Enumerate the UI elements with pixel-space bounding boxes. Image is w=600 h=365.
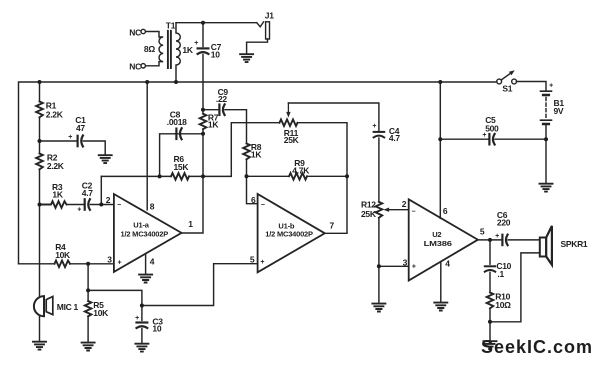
capacitor C10 — [485, 266, 495, 271]
NC terminal top — [141, 29, 145, 33]
svg-text:3: 3 — [107, 254, 112, 264]
wire R11 wiper to C4 — [288, 103, 379, 131]
transformer T1 primary wires and winding — [145, 32, 163, 66]
wire U1-a pin 4 to ground — [145, 254, 147, 275]
svg-text:−: − — [117, 202, 121, 209]
wire C2 to U1-a pin 2 node — [90, 204, 114, 206]
wire C6 to speaker — [508, 239, 540, 241]
wire C1 right to ground — [83, 141, 105, 155]
wire R11 right side down to R9 node and U1-b output — [298, 123, 348, 234]
ground U2 pin 4 — [434, 303, 447, 311]
wire R9 left — [247, 175, 290, 177]
wire R12 bottom through pin3 node to ground — [378, 218, 380, 304]
svg-text:1K: 1K — [251, 150, 262, 160]
resistor R1 — [36, 102, 43, 118]
wire U2 pin 6 from bus through C5 node — [439, 82, 441, 218]
node C7/C9/R7 — [201, 108, 205, 112]
svg-text:1/2 MC34002P: 1/2 MC34002P — [121, 230, 169, 239]
svg-text:.22: .22 — [216, 94, 227, 104]
svg-text:8: 8 — [150, 202, 155, 212]
svg-text:1K: 1K — [52, 190, 63, 200]
capacitor C7 — [198, 48, 209, 54]
node R8/R9/pin6 — [245, 174, 249, 178]
wire U2 output to C6 — [478, 239, 501, 241]
node bus/U2 pin6 — [438, 80, 442, 84]
potentiometer R12 — [376, 202, 383, 218]
svg-text:+: + — [117, 259, 121, 266]
svg-text:10K: 10K — [93, 308, 109, 318]
node R7/feedback — [201, 174, 205, 178]
svg-text:.0018: .0018 — [167, 117, 187, 127]
capacitor C4 — [374, 132, 385, 138]
node bus/pin8 — [145, 80, 149, 84]
svg-text:4: 4 — [445, 259, 450, 269]
svg-text:NC: NC — [129, 61, 141, 71]
svg-text:+: + — [495, 233, 499, 240]
switch S1 — [497, 79, 502, 84]
op-amp U1-b — [258, 194, 325, 272]
wire S1 to battery — [517, 82, 547, 91]
wire T1 secondary top to J1 — [176, 22, 257, 24]
polarity marks — [68, 40, 553, 322]
capacitor C9 — [219, 104, 224, 115]
svg-text:−: − — [261, 202, 265, 209]
wire C9 right corner down to R8 — [225, 110, 246, 144]
svg-text:1K: 1K — [208, 120, 219, 130]
svg-text:2.2K: 2.2K — [47, 161, 65, 171]
ground speaker line — [484, 341, 497, 349]
svg-text:1K: 1K — [182, 45, 193, 55]
connector J1 — [257, 22, 270, 39]
node R10/speaker return — [488, 320, 492, 324]
wire C10 to R10 — [489, 272, 491, 292]
wire battery to C5 node and ground — [545, 126, 547, 184]
svg-text:NC: NC — [129, 27, 141, 37]
svg-text:MIC 1: MIC 1 — [57, 302, 79, 312]
wire R9 right to feedback node — [307, 175, 347, 177]
svg-text:9V: 9V — [554, 106, 564, 116]
svg-text:4: 4 — [150, 256, 155, 266]
ground U1-a pin 4 — [139, 275, 152, 283]
wire MIC 1 to ground — [39, 316, 41, 341]
wire J1/C7 node down through C7 to R7 — [202, 23, 204, 47]
svg-text:5: 5 — [480, 227, 485, 237]
wire R4 line left segment — [19, 263, 55, 265]
op-amp U2 — [409, 199, 478, 280]
wire top supply bus with left rail down to R4 line — [19, 82, 497, 264]
wire feedback line left segment — [101, 175, 171, 177]
svg-text:8Ω: 8Ω — [144, 44, 155, 54]
svg-text:S1: S1 — [502, 84, 512, 94]
node R7/C8 — [201, 132, 205, 136]
svg-text:+: + — [194, 40, 198, 47]
node C2/pin2 — [99, 203, 103, 207]
wire speaker return — [490, 253, 540, 322]
ground C1 — [99, 155, 112, 163]
battery B1 — [541, 91, 552, 120]
wire R4 to U1-a pin 3 — [70, 263, 114, 265]
svg-text:.1: .1 — [497, 269, 504, 279]
wire R7 down through C8 node and feedback node to U1-a output — [182, 129, 204, 233]
svg-text:2: 2 — [106, 195, 111, 205]
ground R12 — [372, 304, 385, 312]
resistor R3 — [40, 201, 67, 208]
node T1/J1/C7 — [201, 21, 205, 25]
svg-text:+: + — [482, 132, 486, 139]
svg-text:J1: J1 — [265, 11, 274, 21]
wire R5 to ground — [87, 316, 89, 342]
node R9/R11/pin7 — [345, 174, 349, 178]
svg-text:10K: 10K — [55, 250, 71, 260]
capacitor C5 — [489, 134, 494, 145]
capacitor C8 — [176, 128, 181, 139]
R12 wiper arrow to U2 pin 2 — [389, 209, 408, 211]
ground B1 — [540, 184, 553, 192]
node C5/U2 pin6 line — [438, 137, 442, 141]
wire second rail top to R1 — [39, 82, 41, 102]
svg-text:2.2K: 2.2K — [46, 109, 64, 119]
svg-text:220: 220 — [497, 217, 511, 227]
svg-text:4.7K: 4.7K — [292, 166, 310, 176]
transformer T1 secondary winding and wires — [176, 23, 180, 82]
wire R3 to C2 — [67, 204, 84, 206]
node bus/R1 — [38, 80, 42, 84]
resistor R10 — [487, 293, 494, 309]
R11 wiper arrow — [287, 103, 289, 112]
svg-text:U2: U2 — [432, 230, 441, 239]
svg-text:+: + — [372, 123, 376, 130]
wire C1 left — [40, 140, 77, 142]
node bus/T1 secondary — [174, 80, 178, 84]
op-amp U1-a — [114, 194, 182, 272]
node U2 out — [488, 238, 492, 242]
wire R5/R4 node branch to C3 node — [87, 264, 89, 301]
ground R5 — [82, 343, 95, 351]
transformer T1 core — [168, 31, 171, 68]
node R5 branch — [86, 288, 90, 292]
node R4/R5/pin3 — [86, 262, 90, 266]
svg-text:25K: 25K — [284, 135, 300, 145]
wire C3 node down — [141, 306, 143, 321]
svg-text:7: 7 — [330, 221, 335, 231]
svg-text:6: 6 — [443, 206, 448, 216]
svg-text:5: 5 — [250, 254, 255, 264]
ground J1 — [240, 54, 253, 62]
node C8/feedback — [158, 174, 162, 178]
wire R8 to node and U1-b pin 6 — [247, 159, 258, 203]
svg-text:+: + — [549, 82, 553, 89]
svg-text:500: 500 — [485, 124, 499, 134]
resistor R2 — [36, 154, 43, 170]
speaker SPKR1 — [540, 238, 546, 257]
svg-text:LM386: LM386 — [424, 239, 452, 248]
wire U1-a pin2 node up to feedback line — [100, 176, 102, 204]
resistor R4 — [55, 261, 71, 268]
resistor R5 — [85, 301, 92, 316]
microphone MIC 1 — [34, 296, 44, 316]
svg-text:15K: 15K — [174, 162, 190, 172]
wire R10 through return node to ground — [489, 308, 491, 341]
svg-text:25K: 25K — [361, 209, 377, 219]
svg-text:6: 6 — [251, 195, 256, 205]
svg-text:+: + — [135, 315, 139, 322]
wire C8 branch — [175, 133, 203, 135]
wire C4 to R12 — [378, 138, 380, 202]
wire C9 left — [203, 109, 218, 111]
node R12/U2 pin3 — [377, 264, 381, 268]
wire J1 sleeve to ground — [247, 39, 268, 54]
svg-text:4.7: 4.7 — [389, 133, 400, 143]
resistor R8 — [243, 144, 250, 160]
resistor R6 — [171, 173, 189, 180]
svg-text:4.7: 4.7 — [82, 188, 93, 198]
wire C5 line left — [440, 138, 488, 140]
wire C7 to C9 node crossing bus — [202, 55, 204, 114]
svg-text:2: 2 — [402, 199, 407, 209]
wire C8 left down to feedback line — [160, 134, 176, 177]
svg-text:1: 1 — [188, 219, 193, 229]
wire feedback line to corner up to R11 line — [189, 123, 280, 177]
node C5/battery — [544, 137, 548, 141]
svg-text:10: 10 — [152, 324, 161, 334]
wire C3 node to U1-b pin 5 — [142, 264, 258, 306]
svg-text:SeekIC.com: SeekIC.com — [481, 337, 593, 357]
capacitor C1 — [78, 136, 83, 147]
potentiometer R11 — [280, 119, 298, 126]
node R1/C1 — [38, 139, 42, 143]
wire R1 to R2 — [39, 117, 41, 153]
resistor R9 — [289, 173, 307, 180]
svg-text:+: + — [68, 134, 72, 141]
wire C5 right to battery line — [495, 138, 546, 140]
ground MIC 1 — [33, 342, 46, 350]
capacitor C3 — [137, 323, 148, 329]
capacitor C2 — [85, 199, 90, 210]
svg-text:−: − — [411, 208, 415, 215]
svg-text:SPKR1: SPKR1 — [561, 239, 588, 249]
svg-text:U1-a: U1-a — [133, 221, 149, 230]
ground C3 — [135, 344, 148, 352]
node R2/R3/MIC — [38, 203, 42, 207]
svg-text:+: + — [412, 263, 416, 270]
wire U2 pin 4 to ground — [440, 262, 442, 302]
svg-text:+: + — [77, 207, 81, 214]
svg-text:3: 3 — [403, 257, 408, 267]
wire output node down to C10 — [489, 240, 491, 264]
svg-text:T1: T1 — [166, 21, 176, 31]
wire R2 to R3 node and down to MIC 1 — [39, 169, 41, 296]
svg-text:+: + — [260, 259, 264, 266]
wire node to C3 — [88, 290, 142, 305]
wire U2 pin 3 stub — [379, 265, 409, 267]
svg-text:10Ω: 10Ω — [495, 300, 511, 310]
NC terminal bottom — [141, 64, 145, 68]
wire U1-a pin 8 from bus — [146, 82, 148, 210]
svg-text:10: 10 — [211, 49, 220, 59]
capacitor C6 — [502, 235, 507, 246]
svg-text:47: 47 — [76, 123, 85, 133]
resistor R7 — [200, 114, 207, 129]
wire C3 to ground — [141, 329, 143, 344]
svg-text:1/2 MC34002P: 1/2 MC34002P — [265, 229, 313, 238]
node C3/pin5 line — [140, 304, 144, 308]
